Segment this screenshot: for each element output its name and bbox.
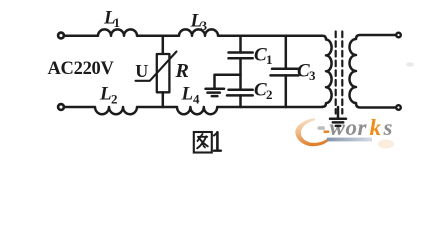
svg-text:3: 3 [201, 18, 208, 33]
svg-text:k: k [370, 115, 382, 140]
svg-text:L: L [181, 84, 194, 105]
svg-text:1: 1 [266, 52, 273, 67]
svg-text:R: R [175, 60, 189, 82]
svg-text:s: s [383, 115, 393, 140]
svg-text:1: 1 [114, 15, 121, 30]
svg-text:4: 4 [193, 91, 200, 106]
svg-text:L: L [99, 84, 112, 105]
svg-text:2: 2 [111, 91, 118, 106]
svg-text:U: U [135, 61, 148, 81]
svg-text:AC220V: AC220V [48, 59, 115, 79]
svg-text:3: 3 [309, 68, 316, 83]
svg-text:2: 2 [266, 87, 273, 102]
